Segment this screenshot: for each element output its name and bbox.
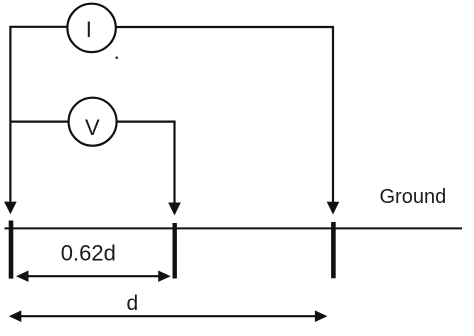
electrode E3 (current probe rod) xyxy=(331,222,336,278)
arrowhead: middle lead into earth xyxy=(168,203,181,216)
wire: top horizontal from left riser to ammeter xyxy=(10,26,69,28)
wire: top horizontal from ammeter to right riser xyxy=(116,26,334,28)
svg-text:V: V xyxy=(85,115,100,140)
svg-text:I: I xyxy=(86,17,92,42)
wire: right vertical riser to current probe xyxy=(332,27,334,203)
electrode E1 (left earth rod) xyxy=(9,221,14,279)
arrowhead: right lead into earth xyxy=(327,202,340,215)
svg-text:Ground: Ground xyxy=(380,186,447,208)
ground surface line xyxy=(5,227,463,229)
stray speck artifact xyxy=(115,56,118,59)
dimension arrow: d span xyxy=(9,310,328,322)
wire: left vertical riser xyxy=(9,26,11,202)
wire: voltmeter horizontal to middle riser xyxy=(116,120,175,122)
svg-text:0.62d: 0.62d xyxy=(61,240,116,265)
wire: voltmeter horizontal from left riser xyxy=(10,120,69,122)
wire: middle vertical riser to potential probe xyxy=(173,122,175,203)
dimension arrow: 0.62d span xyxy=(16,271,171,282)
svg-text:d: d xyxy=(127,292,139,315)
electrode E2 (potential probe rod) xyxy=(172,223,176,279)
ammeter M1 xyxy=(67,4,115,52)
arrowhead: left lead into earth xyxy=(4,202,17,215)
voltmeter M2 xyxy=(69,98,117,146)
